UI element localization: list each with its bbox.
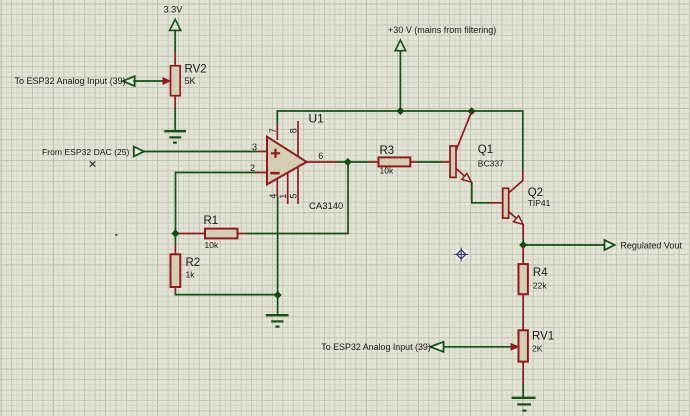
resistor R2 pin bottom (red) — [174, 287, 176, 292]
svg-text:U1: U1 — [309, 112, 325, 126]
svg-text:From ESP32 DAC (25): From ESP32 DAC (25) — [42, 147, 130, 157]
wire feedback vertical — [246, 162, 349, 234]
wire RV1 to ground — [522, 384, 524, 397]
ground (under op-amp) — [266, 315, 289, 326]
svg-text:5K: 5K — [185, 76, 196, 86]
svg-text:RV2: RV2 — [185, 64, 207, 76]
wire Q2 emitter to Vout node — [522, 239, 524, 245]
Q1 base pin (red) — [442, 161, 450, 163]
svg-text:TIP41: TIP41 — [528, 198, 551, 208]
wire wiper RV1 — [444, 346, 512, 348]
power +30V symbol — [395, 40, 406, 111]
svg-text:6: 6 — [318, 151, 323, 161]
resistor R2 — [171, 254, 181, 287]
cursor crosshair — [454, 248, 468, 262]
junction dot rail/+30V — [396, 107, 404, 115]
wiper arrow RV2 (red) — [163, 78, 170, 84]
svg-text:7: 7 — [268, 128, 278, 133]
wire pin 2 horizontal — [176, 173, 256, 234]
junction dot rail/Q1 collector — [468, 107, 476, 115]
transistor Q1 emitter arrow — [462, 174, 472, 183]
pin 2 (red) — [256, 172, 268, 174]
wire Q1 emitter to Q2 base — [472, 183, 490, 203]
svg-text:1k: 1k — [186, 270, 196, 280]
transistor Q2 emitter — [509, 212, 516, 219]
op-amp U1 output pin 6 (red) — [307, 161, 337, 163]
op-amp U1 pins bottom (red) — [276, 175, 278, 197]
ground (under RV1) — [512, 398, 536, 411]
transistor Q1 body bar — [450, 146, 456, 177]
pin 3 (red) — [257, 151, 268, 153]
Q2 base pin (red) — [490, 202, 503, 204]
svg-text:8: 8 — [289, 128, 299, 133]
wire R4 to RV1 (red) — [522, 294, 524, 330]
terminal From ESP32 DAC (25) — [134, 147, 144, 157]
terminal To ESP32 Analog Input (39) lower — [430, 342, 443, 352]
op-amp U1 pins top (red) — [276, 125, 278, 140]
wire R2 bottom to ground node — [175, 292, 277, 295]
svg-text:R2: R2 — [186, 257, 201, 269]
transistor Q2 collector — [509, 170, 523, 193]
junction dot ground node — [274, 291, 282, 299]
wire input to pin 3 — [144, 151, 257, 153]
svg-text:2: 2 — [250, 163, 255, 173]
wire R3 to Q1 base — [418, 161, 443, 163]
wire pin RV2 bottom (red) — [174, 96, 176, 109]
svg-text:3: 3 — [252, 142, 257, 152]
resistor R3 — [379, 157, 411, 166]
resistor R2 pin top (red) — [174, 245, 176, 254]
transistor Q1 emitter — [456, 168, 465, 176]
transistor Q2 emitter arrow — [514, 216, 524, 225]
svg-text:3.3V: 3.3V — [164, 5, 184, 15]
resistor R4 — [519, 264, 528, 294]
svg-text:4: 4 — [268, 194, 278, 199]
svg-text:10k: 10k — [205, 240, 219, 250]
junction dot node out — [344, 158, 352, 166]
op-amp U1 body — [267, 137, 307, 185]
wire op-amp pin4 down — [277, 197, 279, 295]
svg-text:Regulated Vout: Regulated Vout — [620, 241, 682, 251]
potentiometer RV1 — [519, 330, 528, 361]
svg-text:10k: 10k — [380, 166, 394, 176]
svg-text:5: 5 — [289, 194, 299, 199]
wire pin6 to node — [337, 161, 348, 163]
wire RV2 to ground — [174, 109, 176, 131]
op-amp plus sign — [271, 149, 280, 158]
marker x — [90, 161, 96, 166]
svg-text:1: 1 — [278, 194, 288, 199]
terminal To ESP32 Analog Input (39) — [123, 76, 135, 86]
terminal Regulated Vout — [605, 240, 615, 250]
svg-text:Q1: Q1 — [478, 144, 493, 156]
ground (under RV2) — [164, 131, 186, 142]
svg-text:22k: 22k — [533, 281, 547, 291]
wire R2 top — [174, 234, 176, 246]
Q2 emitter pin down (red) — [522, 224, 524, 239]
top rail wire +30V — [277, 111, 523, 170]
svg-text:RV1: RV1 — [532, 331, 554, 343]
svg-text:CA3140: CA3140 — [309, 201, 343, 212]
resistor R1 pins (red) — [179, 233, 206, 235]
svg-text:R4: R4 — [533, 267, 548, 279]
svg-text:BC337: BC337 — [478, 159, 504, 169]
svg-text:R1: R1 — [204, 215, 219, 227]
svg-text:To ESP32 Analog Input (39): To ESP32 Analog Input (39) — [321, 342, 431, 352]
wire Vout node to terminal — [523, 244, 604, 246]
svg-text:+30 V (mains from filtering): +30 V (mains from filtering) — [388, 25, 496, 35]
wiper arrow RV1 (red) — [511, 344, 518, 350]
junction dot R1/R2/pin2 — [171, 230, 179, 238]
svg-text:To ESP32 Analog Input (39): To ESP32 Analog Input (39) — [15, 76, 126, 86]
op-amp minus sign — [270, 172, 279, 175]
wire ground stem — [277, 295, 279, 315]
resistor R4 pin top (red) — [522, 245, 524, 264]
power +3.3V symbol — [170, 19, 181, 51]
svg-text:R3: R3 — [380, 145, 395, 157]
potentiometer RV2 — [171, 66, 181, 96]
svg-text:2K: 2K — [532, 344, 543, 354]
resistor R1 — [205, 229, 238, 239]
RV1 pin bottom (red) — [522, 362, 524, 384]
junction dot Vout — [519, 241, 527, 249]
origin marker dot — [115, 234, 117, 236]
transistor Q1 collector — [456, 112, 472, 152]
transistor Q2 body bar — [503, 188, 509, 218]
wire wiper RV2 — [133, 80, 163, 82]
wire node to R3 — [348, 161, 369, 163]
resistor R3 pins (red) — [369, 161, 379, 163]
wire pin RV2 top (red) — [174, 52, 176, 67]
